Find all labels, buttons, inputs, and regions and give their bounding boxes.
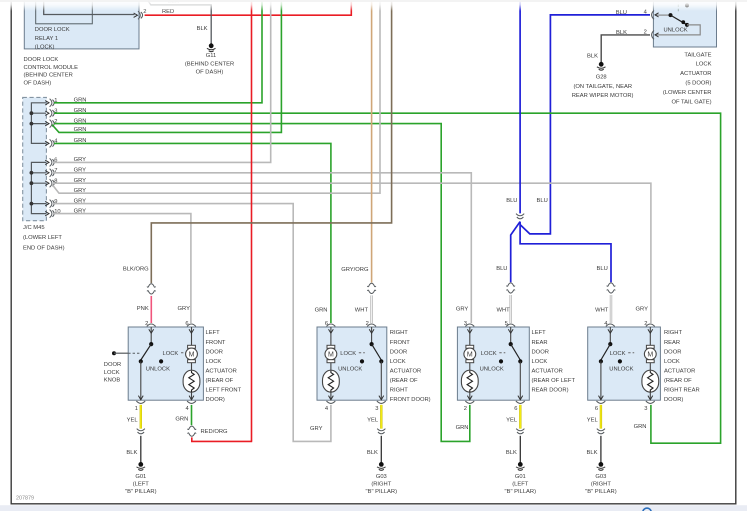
svg-text:6: 6 bbox=[514, 406, 517, 412]
svg-text:BLU: BLU bbox=[506, 198, 517, 204]
left front door lock actuator label bbox=[206, 330, 242, 403]
mating connector GRY/ORG to WHT bbox=[367, 283, 376, 286]
J/C M45 pin 2 connector bbox=[45, 119, 57, 128]
left rear door lock actuator pin 6 (bottom) bbox=[514, 396, 524, 412]
svg-text:ACTUATOR: ACTUATOR bbox=[680, 71, 711, 77]
svg-text:LOCK: LOCK bbox=[206, 359, 222, 365]
svg-text:BLK: BLK bbox=[506, 450, 517, 456]
wire BLK from module top to ground G11 bbox=[148, 0, 211, 43]
svg-text:GRY: GRY bbox=[74, 157, 87, 163]
wire YEL / BLK to ground G01 (left front, LEFT B PILLAR) bbox=[125, 405, 157, 495]
svg-text:YEL: YEL bbox=[587, 418, 599, 424]
wire BLU from tailgate pin 4 down to junction bbox=[520, 10, 650, 234]
svg-text:UNLOCK: UNLOCK bbox=[338, 366, 362, 372]
tailgate switch internals bbox=[655, 0, 700, 35]
left front door lock actuator pin 6 (top) bbox=[185, 321, 195, 333]
svg-text:GRY: GRY bbox=[74, 208, 87, 214]
wire BLU splice down-right branch to right rear pin 4 bbox=[520, 222, 611, 283]
svg-text:G03: G03 bbox=[595, 474, 606, 480]
wire GRN pin4 - down to right front actuator pin 6 bbox=[54, 138, 331, 323]
wire GRY pin8 second branch - diagonal then up at x380 bbox=[52, 0, 380, 194]
wire WHT into right front actuator pin 2 bbox=[355, 295, 372, 323]
footer bar bbox=[0, 505, 747, 511]
J/C M45 pin 6 connector bbox=[45, 158, 57, 167]
svg-text:BLU: BLU bbox=[496, 266, 507, 272]
svg-text:(REAR OF: (REAR OF bbox=[390, 378, 418, 384]
wire BLK from tailgate pin 2 to ground G28 bbox=[587, 30, 650, 62]
svg-text:LOCK: LOCK bbox=[163, 351, 179, 357]
right rear door lock actuator pin 6 (bottom) bbox=[595, 396, 605, 412]
svg-text:GRY: GRY bbox=[636, 306, 649, 312]
svg-text:LEFT: LEFT bbox=[532, 330, 547, 336]
svg-text:2: 2 bbox=[464, 406, 467, 412]
svg-text:BLK: BLK bbox=[587, 54, 598, 60]
tailgate actuator label bbox=[663, 53, 712, 106]
svg-text:WHT: WHT bbox=[355, 308, 369, 314]
svg-text:GRN: GRN bbox=[74, 108, 87, 114]
J/C M45 pin 3 connector bbox=[45, 108, 57, 117]
svg-text:KNOB: KNOB bbox=[104, 378, 121, 384]
svg-text:G11: G11 bbox=[206, 53, 217, 59]
tailgate lock actuator box bbox=[653, 0, 716, 47]
left rear door lock actuator pin 2 (bottom) bbox=[464, 396, 474, 412]
J/C M45 pin 1 connector bbox=[45, 98, 57, 107]
svg-text:LOCK: LOCK bbox=[532, 359, 548, 365]
wire WHT into left rear actuator pin 5 bbox=[496, 295, 510, 323]
svg-text:FRONT: FRONT bbox=[390, 340, 410, 346]
svg-text:BLK: BLK bbox=[197, 26, 208, 32]
svg-text:G28: G28 bbox=[596, 74, 607, 80]
svg-text:(ON TAILGATE, NEAR: (ON TAILGATE, NEAR bbox=[573, 84, 632, 90]
svg-text:GRY/ORG: GRY/ORG bbox=[341, 267, 369, 273]
svg-text:BLK/ORG: BLK/ORG bbox=[123, 267, 149, 273]
right front door lock actuator pin 2 (top) bbox=[366, 321, 376, 333]
left rear door lock actuator motor M and resistor bbox=[461, 327, 478, 400]
svg-text:GRN: GRN bbox=[175, 417, 188, 423]
svg-text:DOOR LOCK: DOOR LOCK bbox=[35, 27, 70, 33]
svg-text:(RIGHT: (RIGHT bbox=[591, 482, 611, 488]
mating connector BLU to WHT (right rear) bbox=[607, 283, 616, 286]
svg-text:GRY: GRY bbox=[74, 198, 87, 204]
svg-text:3: 3 bbox=[644, 406, 647, 412]
wire YEL / BLK to ground G03 (right front, RIGHT B PILLAR) bbox=[366, 405, 398, 495]
wire RED from module pin 2 - up at right bbox=[145, 0, 352, 15]
svg-text:END OF DASH): END OF DASH) bbox=[23, 245, 65, 251]
svg-text:(REAR OF: (REAR OF bbox=[206, 378, 234, 384]
left front door lock actuator pin 1 (bottom) bbox=[135, 396, 145, 412]
svg-text:DOOR: DOOR bbox=[664, 349, 681, 355]
svg-text:ACTUATOR: ACTUATOR bbox=[532, 368, 563, 374]
svg-text:UNLOCK: UNLOCK bbox=[480, 366, 504, 372]
svg-text:UNLOCK: UNLOCK bbox=[146, 366, 170, 372]
wire RED from top down to RED/ORG loop under left front actuator bbox=[251, 0, 253, 441]
wire YEL / BLK to ground G03 (right rear, RIGHT B PILLAR) bbox=[585, 405, 617, 495]
svg-text:3: 3 bbox=[464, 321, 467, 327]
svg-text:GRY: GRY bbox=[456, 307, 469, 313]
svg-text:2: 2 bbox=[145, 321, 148, 327]
svg-text:(LEFT: (LEFT bbox=[512, 482, 529, 488]
svg-text:BLK: BLK bbox=[587, 450, 598, 456]
left front door lock actuator box bbox=[128, 327, 203, 400]
svg-text:BLU: BLU bbox=[537, 198, 548, 204]
svg-text:"B" PILLAR): "B" PILLAR) bbox=[585, 489, 617, 495]
svg-text:BLU: BLU bbox=[597, 266, 608, 272]
left front door lock actuator motor M and resistor bbox=[183, 327, 200, 400]
svg-text:(RIGHT: (RIGHT bbox=[371, 482, 391, 488]
svg-text:YEL: YEL bbox=[127, 418, 139, 424]
left front door lock actuator pin 2 (top) bbox=[145, 321, 155, 333]
top fade overlay bbox=[0, 0, 747, 11]
door lock relay 1 (lock) inside module bbox=[35, 0, 93, 50]
wire GRY/ORG from top down to connector above right front pin 2 bbox=[341, 0, 371, 283]
right front door lock actuator motor M and resistor bbox=[323, 327, 340, 400]
svg-text:DOOR LOCK: DOOR LOCK bbox=[24, 57, 59, 63]
svg-text:YEL: YEL bbox=[506, 418, 518, 424]
svg-text:REAR WIPER MOTOR): REAR WIPER MOTOR) bbox=[572, 93, 634, 99]
tailgate pin 2 connector bbox=[644, 30, 659, 40]
left rear door lock actuator box bbox=[457, 327, 529, 400]
svg-text:WHT: WHT bbox=[595, 308, 609, 314]
svg-text:BLK: BLK bbox=[367, 450, 378, 456]
J/C M45 pin 8 connector bbox=[45, 178, 57, 187]
svg-text:M: M bbox=[189, 352, 195, 359]
wire GRY pin7 - down to left rear actuator pin 3 bbox=[54, 168, 471, 324]
svg-text:TAILGATE: TAILGATE bbox=[684, 53, 711, 59]
svg-text:DOOR): DOOR) bbox=[206, 397, 225, 403]
svg-text:GRN: GRN bbox=[74, 138, 87, 144]
left front door lock actuator switch bbox=[139, 327, 187, 400]
J/C M45 pin 7 connector bbox=[45, 168, 57, 177]
right rear door lock actuator pin 3 (bottom) bbox=[644, 396, 654, 412]
J/C M45 green bus junction dots bbox=[30, 111, 34, 115]
right rear door lock actuator box bbox=[588, 327, 661, 400]
J/C M45 green bus wire bbox=[31, 103, 46, 144]
svg-text:GRY: GRY bbox=[310, 426, 323, 432]
right front door lock actuator switch bbox=[338, 327, 383, 400]
svg-text:M: M bbox=[328, 352, 334, 359]
svg-text:CONTROL MODULE: CONTROL MODULE bbox=[24, 65, 79, 71]
right rear door lock actuator label bbox=[664, 330, 700, 403]
svg-text:2: 2 bbox=[366, 321, 369, 327]
inline connector on BLU wire bbox=[516, 214, 524, 216]
svg-text:M: M bbox=[647, 352, 653, 359]
svg-text:6: 6 bbox=[595, 406, 598, 412]
wire BLU main from top down to inline connector bbox=[506, 0, 548, 213]
svg-text:LOCK: LOCK bbox=[664, 359, 680, 365]
left rear door lock actuator pin 3 (top) bbox=[464, 321, 474, 333]
wire BLK/ORG from top, left at y223, down to connector above left front pin 2 bbox=[123, 0, 392, 283]
svg-text:(BEHIND CENTER: (BEHIND CENTER bbox=[185, 61, 234, 67]
svg-text:"B" PILLAR): "B" PILLAR) bbox=[125, 489, 157, 495]
right rear door lock actuator pin 2 (top) bbox=[644, 321, 654, 333]
right rear door lock actuator motor M and resistor bbox=[642, 327, 659, 400]
svg-text:REAR: REAR bbox=[532, 340, 548, 346]
svg-text:DOOR: DOOR bbox=[206, 349, 223, 355]
left front door lock actuator pin 4 (bottom) bbox=[185, 396, 195, 412]
svg-text:RED/ORG: RED/ORG bbox=[201, 429, 229, 435]
svg-text:LOCK: LOCK bbox=[696, 62, 712, 68]
svg-text:"B" PILLAR): "B" PILLAR) bbox=[366, 489, 398, 495]
footer help icon bbox=[643, 508, 651, 511]
svg-text:WHT: WHT bbox=[496, 308, 510, 314]
svg-text:GRY: GRY bbox=[178, 306, 191, 312]
svg-text:YEL: YEL bbox=[367, 418, 379, 424]
svg-text:RIGHT: RIGHT bbox=[664, 330, 682, 336]
wire RED/ORG stub joining red loop bbox=[192, 429, 252, 441]
mating connector BLU to WHT (left rear) bbox=[506, 283, 515, 286]
left rear door lock actuator pin 5 (top) bbox=[505, 321, 515, 333]
svg-text:GRN: GRN bbox=[456, 425, 469, 431]
J/C M45 pin 10 connector bbox=[45, 209, 60, 218]
svg-text:GRN: GRN bbox=[315, 308, 328, 314]
wire GRN from left front pin 4 to connector bbox=[175, 405, 191, 425]
BLU branch labels bbox=[496, 266, 608, 272]
wire GRY pin8 - down to right rear actuator pin 2 bbox=[54, 178, 651, 323]
svg-text:2: 2 bbox=[644, 321, 647, 327]
left rear door lock actuator label bbox=[532, 330, 576, 393]
wire BLU splice down-left branch to left rear pin 5 bbox=[511, 222, 520, 283]
svg-text:ACTUATOR: ACTUATOR bbox=[664, 368, 695, 374]
wire GRY pin10 - down to left front actuator pin 6 bbox=[54, 208, 191, 323]
J/C M45 gray bus junction dots bbox=[30, 171, 34, 175]
right front door lock actuator pin 3 (bottom) bbox=[375, 396, 385, 412]
wire GRN pin2 second branch - diagonal then up at x281 bbox=[52, 0, 281, 133]
door lock control module (behind center of dash) bbox=[24, 0, 140, 86]
svg-text:GRN: GRN bbox=[74, 98, 87, 104]
svg-text:LOCK: LOCK bbox=[390, 359, 406, 365]
mating connector GRN to RED/ORG bbox=[188, 426, 197, 429]
svg-text:OF DASH): OF DASH) bbox=[24, 80, 52, 86]
svg-text:FRONT: FRONT bbox=[206, 340, 226, 346]
svg-text:1: 1 bbox=[135, 406, 138, 412]
svg-text:FRONT DOOR): FRONT DOOR) bbox=[390, 397, 431, 403]
svg-text:M: M bbox=[467, 352, 473, 359]
right front door lock actuator label bbox=[390, 330, 431, 403]
ground G28 (on tailgate, near rear wiper motor) bbox=[572, 62, 634, 100]
svg-text:GRY: GRY bbox=[74, 188, 87, 194]
svg-text:6: 6 bbox=[325, 321, 328, 327]
svg-text:G01: G01 bbox=[515, 474, 526, 480]
svg-text:LOCK: LOCK bbox=[340, 351, 356, 357]
svg-text:(5 DOOR): (5 DOOR) bbox=[685, 80, 711, 86]
svg-text:DOOR): DOOR) bbox=[664, 397, 683, 403]
ground G11 (behind center of dash) bbox=[185, 43, 234, 75]
J/C M45 pin 4 connector bbox=[45, 139, 58, 148]
right rear door lock actuator pin 4 (top) bbox=[604, 321, 614, 333]
svg-text:GRY: GRY bbox=[74, 168, 87, 174]
module pin 2 connector bbox=[134, 9, 147, 19]
svg-text:LOCK: LOCK bbox=[610, 351, 626, 357]
svg-text:ACTUATOR: ACTUATOR bbox=[206, 368, 237, 374]
wire from relay to module pin 2 bbox=[44, 0, 135, 15]
wire GRY pin9 - loop under right front actuator to pin 4 bbox=[54, 198, 331, 441]
J/C M45 gray bus wire bbox=[31, 162, 46, 213]
svg-text:GRN: GRN bbox=[74, 127, 87, 133]
svg-text:PNK: PNK bbox=[137, 306, 149, 312]
wire WHT into right rear actuator pin 4 bbox=[595, 295, 611, 323]
svg-text:RELAY 1: RELAY 1 bbox=[35, 36, 58, 42]
svg-text:DOOR: DOOR bbox=[532, 349, 549, 355]
svg-text:(LOWER CENTER: (LOWER CENTER bbox=[663, 90, 712, 96]
svg-text:(REAR OF LEFT: (REAR OF LEFT bbox=[532, 378, 576, 384]
svg-text:LEFT: LEFT bbox=[206, 330, 221, 336]
wire PNK into left front actuator pin 2 bbox=[137, 296, 152, 323]
svg-text:REAR: REAR bbox=[664, 340, 680, 346]
svg-text:"B" PILLAR): "B" PILLAR) bbox=[505, 489, 537, 495]
svg-text:LEFT FRONT: LEFT FRONT bbox=[206, 388, 242, 394]
svg-text:RIGHT: RIGHT bbox=[390, 330, 408, 336]
svg-text:RIGHT: RIGHT bbox=[390, 388, 408, 394]
tailgate pin 4 connector bbox=[644, 9, 659, 19]
svg-text:J/C M45: J/C M45 bbox=[23, 225, 45, 231]
svg-text:ACTUATOR: ACTUATOR bbox=[390, 368, 421, 374]
svg-text:(LOCK): (LOCK) bbox=[35, 44, 55, 50]
svg-text:BLK: BLK bbox=[126, 450, 137, 456]
door lock knob linkage bbox=[104, 351, 140, 383]
left rear door lock actuator switch bbox=[480, 327, 523, 400]
right front door lock actuator pin 6 (top) bbox=[325, 321, 335, 333]
svg-text:UNLOCK: UNLOCK bbox=[664, 28, 688, 34]
svg-text:OF TAIL GATE): OF TAIL GATE) bbox=[671, 99, 711, 105]
right front door lock actuator box bbox=[317, 327, 387, 400]
wire GRN pin3 - big loop right side down to right rear actuator pin 3 bbox=[54, 108, 721, 443]
svg-text:LOCK: LOCK bbox=[104, 370, 120, 376]
svg-text:RIGHT REAR: RIGHT REAR bbox=[664, 388, 700, 394]
wire GRN pin2 - loop under left rear actuator to pin 2 bbox=[54, 118, 470, 441]
right front door lock actuator pin 4 (bottom) bbox=[325, 396, 335, 412]
svg-text:GRY: GRY bbox=[74, 178, 87, 184]
svg-text:BLK: BLK bbox=[616, 30, 627, 36]
svg-text:G01: G01 bbox=[135, 474, 146, 480]
right rear door lock actuator switch bbox=[599, 327, 634, 400]
svg-text:(LEFT: (LEFT bbox=[133, 482, 150, 488]
svg-text:(LOWER LEFT: (LOWER LEFT bbox=[23, 235, 62, 241]
svg-text:UNLOCK: UNLOCK bbox=[609, 366, 633, 372]
J/C M45 pin 9 connector bbox=[45, 199, 57, 208]
svg-text:3: 3 bbox=[375, 406, 378, 412]
svg-text:G03: G03 bbox=[376, 474, 387, 480]
svg-text:207879: 207879 bbox=[16, 495, 34, 501]
svg-text:(REAR OF: (REAR OF bbox=[664, 378, 692, 384]
svg-text:DOOR: DOOR bbox=[390, 349, 407, 355]
wire YEL / BLK to ground G01 (left rear, LEFT B PILLAR) bbox=[505, 405, 537, 495]
svg-text:5: 5 bbox=[505, 321, 508, 327]
svg-text:(BEHIND CENTER: (BEHIND CENTER bbox=[24, 73, 73, 79]
junction connector J/C M45 box bbox=[23, 97, 65, 251]
svg-text:DOOR: DOOR bbox=[104, 362, 121, 368]
mating connector BLK/ORG to PNK bbox=[147, 284, 156, 287]
wire GRY pin6 - right then up bbox=[54, 0, 271, 163]
svg-text:6: 6 bbox=[185, 321, 188, 327]
svg-text:OF DASH): OF DASH) bbox=[196, 69, 224, 75]
svg-text:GRN: GRN bbox=[634, 424, 647, 430]
svg-text:REAR DOOR): REAR DOOR) bbox=[532, 388, 569, 394]
svg-text:LOCK: LOCK bbox=[481, 351, 497, 357]
svg-text:GRN: GRN bbox=[74, 118, 87, 124]
wire GRN pin1 - right then up bbox=[54, 0, 262, 104]
